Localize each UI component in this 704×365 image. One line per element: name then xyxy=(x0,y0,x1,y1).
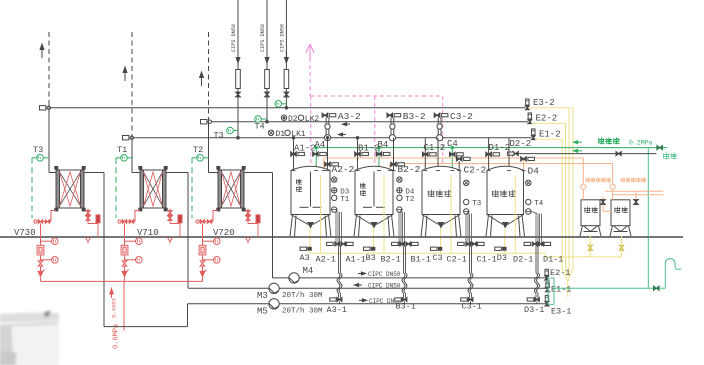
svg-text:A3-1: A3-1 xyxy=(327,305,347,315)
red piping at V730 xyxy=(36,221,52,223)
drop pipe and valve B3-1 xyxy=(403,246,405,273)
dosing tank nongsuan xyxy=(611,200,630,226)
instrument D1 xyxy=(268,130,273,135)
heat exchanger V710 xyxy=(140,170,166,208)
pipe to V710 xyxy=(131,135,133,173)
svg-text:D3: D3 xyxy=(497,253,507,263)
svg-text:D4: D4 xyxy=(528,165,540,176)
svg-text:T4: T4 xyxy=(534,200,544,208)
dashed supply line 2 xyxy=(131,32,133,135)
tank 1 bottom valves xyxy=(400,242,402,246)
green flow arrow 2 xyxy=(575,150,582,152)
svg-text:C2-2: C2-2 xyxy=(464,165,487,176)
svg-text:V710: V710 xyxy=(137,228,159,238)
tank 1 side pipes xyxy=(398,212,400,246)
yellow drain from E1-2 xyxy=(535,139,562,268)
green swan neck vent xyxy=(665,259,681,289)
tank 0 nozzles xyxy=(332,177,337,182)
vent E2-2 xyxy=(528,113,531,119)
svg-text:A1-2: A1-2 xyxy=(294,144,316,154)
connector E1-1 xyxy=(546,282,549,288)
CIP supply line 1 with inline sight glass and valve xyxy=(237,0,239,138)
valve B2-2 xyxy=(391,162,394,166)
orange feed tank2 xyxy=(612,164,614,185)
svg-text:T4: T4 xyxy=(255,121,265,131)
svg-text:C4: C4 xyxy=(447,139,458,149)
yellow drain line 4 xyxy=(572,108,574,268)
instrument D2 xyxy=(281,115,286,120)
svg-text:M3: M3 xyxy=(257,291,268,301)
drop pipe and valve C3-1 xyxy=(469,246,471,273)
valve A1-2 xyxy=(291,152,294,156)
green water main xyxy=(316,147,657,149)
valve D1-2 xyxy=(486,152,489,156)
svg-text:D1-2: D1-2 xyxy=(489,143,511,153)
svg-text:20T/h 30M: 20T/h 30M xyxy=(282,292,323,300)
tank 0 side pipes xyxy=(335,212,337,246)
bottom return loop xyxy=(104,326,188,328)
svg-text:B1-2: B1-2 xyxy=(358,144,380,154)
tank 3 nozzles xyxy=(526,180,531,185)
tank 2 name xyxy=(427,191,429,197)
svg-text:1: 1 xyxy=(609,179,612,185)
orange return lines xyxy=(605,190,663,192)
svg-text:C3: C3 xyxy=(433,253,443,263)
V710 outlet pipe xyxy=(166,172,188,174)
temperature sensor T1 xyxy=(121,155,128,162)
drop pipe and valve D3-1 xyxy=(535,246,537,273)
valve B4 xyxy=(376,152,379,156)
pipe to V720 xyxy=(208,119,210,173)
vent E1-2 xyxy=(532,129,535,135)
green sensor on CIP line 3 xyxy=(275,101,282,108)
svg-text:A3-2: A3-2 xyxy=(338,111,361,122)
tank 3 body xyxy=(487,166,524,214)
valve C2-2 xyxy=(456,157,459,161)
svg-text:M4: M4 xyxy=(303,266,314,276)
svg-text:D2-2: D2-2 xyxy=(510,139,532,149)
svg-text:D2: D2 xyxy=(288,115,298,124)
valve A2-2 xyxy=(325,162,328,166)
connector E2-1 xyxy=(545,269,548,275)
svg-text:C3-1: C3-1 xyxy=(462,301,482,311)
photo fragment xyxy=(0,311,59,365)
flow arrow on header 3 xyxy=(340,134,346,136)
temperature sensor T2 xyxy=(197,155,204,162)
pipes header3 to tank A xyxy=(293,138,295,171)
label chun-shui (pure water) xyxy=(663,153,665,158)
svg-text:V720: V720 xyxy=(213,228,235,238)
header line 3 (y138) xyxy=(122,137,532,139)
svg-text:M5: M5 xyxy=(257,306,268,316)
svg-text:E2-2: E2-2 xyxy=(536,114,558,124)
dashed supply line 1 xyxy=(48,32,50,105)
yellow tank drain pipes xyxy=(309,229,311,254)
pipes header3 to tank C xyxy=(424,138,426,170)
tank 0 name xyxy=(296,179,298,184)
pipes header3 to tank B xyxy=(357,138,359,171)
svg-text:A2-1: A2-1 xyxy=(316,254,336,264)
drop pipe and valve A3-1 xyxy=(338,246,340,273)
tank 1 agitator xyxy=(373,172,375,207)
tank 0 agitator xyxy=(310,172,312,207)
valve B3-2 with riser pipe xyxy=(387,113,390,117)
svg-text:0.6MPa: 0.6MPa xyxy=(113,324,121,349)
svg-text:T3: T3 xyxy=(33,145,43,155)
svg-text:A3: A3 xyxy=(300,253,310,263)
svg-text:C3-2: C3-2 xyxy=(450,111,473,122)
valve A3-2 with riser pipe xyxy=(322,113,325,117)
connector E3-1 xyxy=(545,295,548,301)
orange line 1 xyxy=(324,157,584,159)
svg-text:S-4803: S-4803 xyxy=(111,298,118,318)
dosing tank nongjian xyxy=(581,200,600,226)
tank 2 bottom valves xyxy=(466,242,468,246)
tank 2 side pipes xyxy=(465,214,467,247)
tank 1 body xyxy=(355,166,393,214)
tank 1 nozzles xyxy=(397,177,402,182)
svg-text:0.2MPa: 0.2MPa xyxy=(629,139,653,146)
svg-text:D1-1: D1-1 xyxy=(543,254,563,264)
label pneumatic pump 2 xyxy=(620,178,622,182)
flow arrow on header 2 xyxy=(344,123,350,125)
V720 outlet pipe xyxy=(244,172,273,174)
svg-text:B2-2: B2-2 xyxy=(398,164,421,175)
svg-text:B1-1: B1-1 xyxy=(411,254,431,264)
heat exchanger V730 xyxy=(56,170,84,208)
svg-text:E3-1: E3-1 xyxy=(551,307,571,317)
valve C1-2 xyxy=(423,152,426,156)
green sensor T4 xyxy=(255,116,262,123)
tank 3 name xyxy=(491,191,493,197)
CIPC DN50 row2 xyxy=(356,284,362,286)
green flow arrow 1 xyxy=(575,141,582,143)
tank 3 side pipes xyxy=(535,214,537,247)
svg-text:B3-2: B3-2 xyxy=(403,111,426,122)
green water valve right xyxy=(657,145,660,149)
green sensor T3 top xyxy=(227,127,234,134)
svg-text:CIPS DN50: CIPS DN50 xyxy=(231,24,237,52)
svg-text:T3: T3 xyxy=(472,200,482,208)
label zi-lai-shui (tap water) xyxy=(598,138,600,143)
header line 2 (y122) xyxy=(200,121,528,123)
svg-text:T3: T3 xyxy=(214,131,224,141)
svg-text:A4: A4 xyxy=(315,140,326,150)
pure water line xyxy=(517,153,657,155)
tank 1 name xyxy=(360,183,362,188)
pump M5 line xyxy=(188,303,269,305)
svg-text:CIPS DN50: CIPS DN50 xyxy=(279,24,285,52)
tank 2 body xyxy=(422,166,460,214)
svg-text:20T/h 30M: 20T/h 30M xyxy=(282,307,323,315)
CIP supply line 2 with inline sight glass and valve xyxy=(266,0,268,122)
heat exchanger V720 xyxy=(218,170,244,208)
svg-text:B2-1: B2-1 xyxy=(381,254,401,264)
svg-text:D3-1: D3-1 xyxy=(524,305,544,315)
pump M4 line xyxy=(273,277,290,279)
svg-text:CIPS DN50: CIPS DN50 xyxy=(260,24,266,52)
yellow drains under dosing tanks xyxy=(589,236,591,244)
valve D4 xyxy=(521,157,524,161)
junction dots CIP drops xyxy=(285,107,288,110)
svg-text:E3-2: E3-2 xyxy=(533,98,555,108)
CIPC DN50 row1 xyxy=(358,273,364,275)
red drop with 0.6MPa xyxy=(123,281,125,330)
floor line xyxy=(0,236,683,238)
instrument LK2 xyxy=(298,115,303,120)
svg-text:A2-2: A2-2 xyxy=(332,164,355,175)
svg-text:LK2: LK2 xyxy=(305,115,320,124)
yellow drain from E2-2 xyxy=(532,123,566,268)
dosing valve 1 xyxy=(601,200,606,203)
pipe to V730 xyxy=(48,105,50,173)
tank 0 body xyxy=(291,166,330,214)
green supply drops to tanks xyxy=(315,148,317,171)
pipes header3 to tank D xyxy=(488,138,490,171)
tank 3 bottom valves xyxy=(532,242,534,246)
dosing valve 2 xyxy=(634,200,639,203)
svg-text:CIPC DN50: CIPC DN50 xyxy=(368,283,401,290)
valve A4 xyxy=(313,152,316,156)
valve C4 xyxy=(450,152,453,156)
vent E3-2 xyxy=(526,99,529,105)
CIP supply line 3 with inline sight glass and valve xyxy=(285,0,287,108)
tank 2 nozzles xyxy=(464,180,469,185)
svg-text:B3-1: B3-1 xyxy=(396,301,416,311)
svg-text:E2-1: E2-1 xyxy=(550,268,570,278)
V730 outlet pipe xyxy=(84,172,104,174)
CIPC DN50 row3 xyxy=(359,299,365,301)
green vertical to bottom xyxy=(647,148,649,289)
svg-text:C1-2: C1-2 xyxy=(424,143,446,153)
green drain line bottom xyxy=(554,287,654,289)
tank 0 bottom valves xyxy=(335,242,337,246)
label pneumatic pump 1 xyxy=(585,178,587,182)
svg-text:V730: V730 xyxy=(14,228,36,238)
red drain header xyxy=(41,280,203,282)
header line 1 (y108) xyxy=(39,107,526,109)
svg-text:T1: T1 xyxy=(340,196,350,204)
svg-text:D2-1: D2-1 xyxy=(513,254,533,264)
valve B1-2 xyxy=(355,152,358,156)
svg-text:D1: D1 xyxy=(276,130,286,139)
red piping at V720 xyxy=(198,221,214,223)
pipe entry ticks on tank tops xyxy=(292,170,296,172)
pump M3 line xyxy=(188,287,269,289)
svg-text:B3: B3 xyxy=(366,253,376,263)
instrument LK1 xyxy=(285,130,290,135)
svg-text:T1: T1 xyxy=(117,145,127,155)
valve C3-2 with riser pipe xyxy=(434,113,437,117)
green sample box xyxy=(548,278,554,304)
orange feed tank1 xyxy=(582,158,584,184)
svg-text:T2: T2 xyxy=(405,196,414,204)
svg-text:CIPC DN50: CIPC DN50 xyxy=(368,271,401,278)
temperature sensor T3 xyxy=(37,155,44,162)
svg-text:E1-2: E1-2 xyxy=(539,129,561,139)
yellow drain manifold xyxy=(310,252,545,254)
yellow funnel collector xyxy=(562,268,568,281)
svg-text:A1-1: A1-1 xyxy=(346,254,366,264)
yellow drain from E3-2 xyxy=(529,108,569,268)
dashed supply line 3 xyxy=(208,32,210,119)
valve D2-2 xyxy=(513,151,516,155)
svg-text:T2: T2 xyxy=(193,145,203,155)
svg-text:C2-1: C2-1 xyxy=(447,254,467,264)
pink dashed supply with arrow xyxy=(309,58,311,96)
orange line 2 xyxy=(390,163,613,165)
svg-text:2: 2 xyxy=(644,179,647,185)
svg-text:B4: B4 xyxy=(378,140,389,150)
svg-text:C1-1: C1-1 xyxy=(477,254,497,264)
red piping at V710 xyxy=(120,221,136,223)
